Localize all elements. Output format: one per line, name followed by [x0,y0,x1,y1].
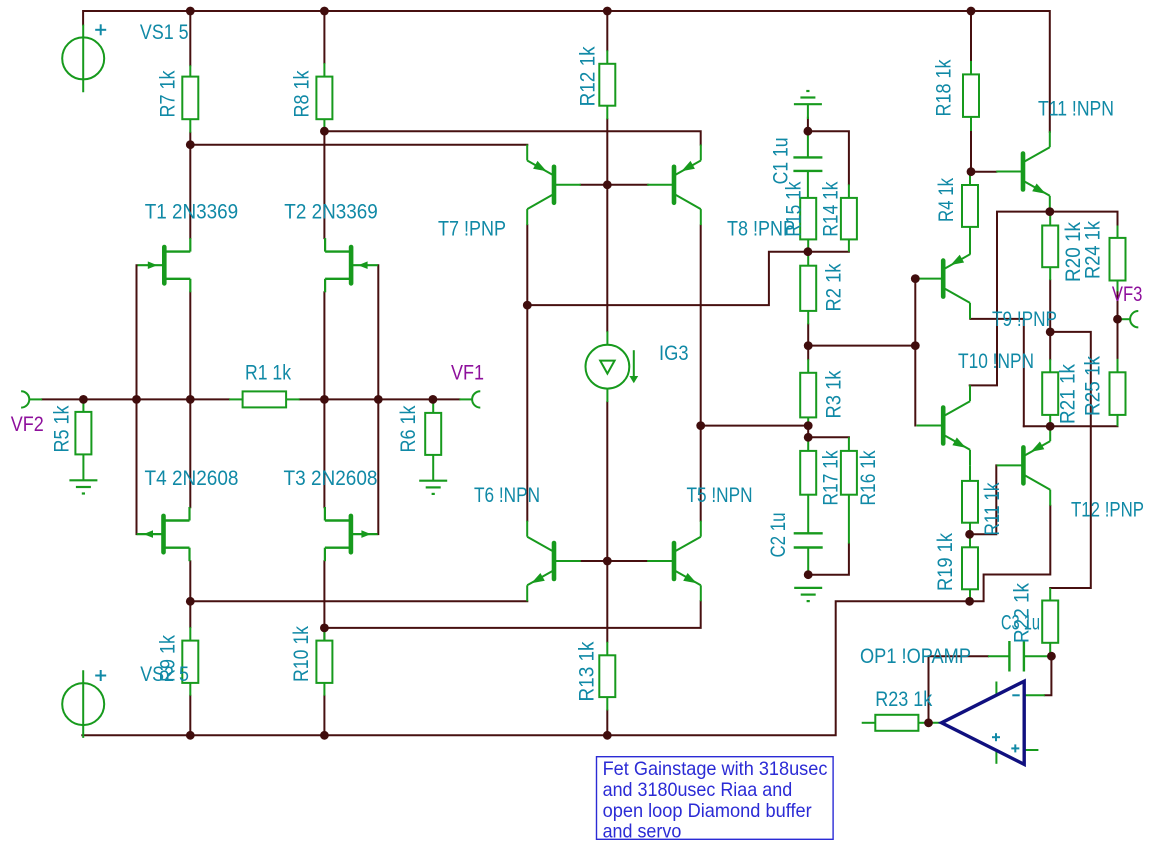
wire R12 top lead from rail [606,11,608,50]
resistor R19 1k [962,534,978,601]
op-amp OP1 !OPAMP [925,681,1045,764]
svg-text:R19 1k: R19 1k [933,533,957,591]
junction R19 bottom node [965,597,974,606]
resistor R17 1k [800,437,816,494]
svg-text:open loop Diamond buffer: open loop Diamond buffer [603,800,813,822]
transistor T10 !NPN [916,385,970,466]
lead flipped ground to C1 node [807,104,809,119]
transistor T8 !PNP [647,145,701,226]
wire input row R1 right to VF1 [300,398,460,400]
junction rail/R8 [320,7,329,16]
svg-text:T6 !NPN: T6 !NPN [474,483,540,507]
resistor R18 1k [963,61,979,131]
svg-text:T7 !PNP: T7 !PNP [438,217,506,241]
wire R16 bottom to C2 ground node [808,544,849,575]
wire input row VF2 to R1 left [42,398,229,400]
wire R13 bottom lead [606,711,608,736]
transistor T1 2N3369 n-JFET [138,238,191,292]
transistor T12 !PNP [997,425,1051,506]
wire R10 bottom lead [323,696,325,736]
wire T12 base jog from R11/R19 node [970,465,997,534]
wire T11 emitter node to T10 collector [970,212,1050,386]
wire T11 base lead dark segment [971,171,996,173]
wire T5 base lead [607,560,647,562]
transistor T6 !NPN [527,521,581,602]
svg-text:R3 1k: R3 1k [822,370,846,418]
transistor T3 2N2608 p-JFET [325,507,378,561]
junction T7 collector node [523,301,532,310]
resistor R4 1k [962,172,978,255]
annotation text box [597,757,834,840]
junction R3 bottom [804,421,813,430]
svg-text:C2 1u: C2 1u [766,513,790,558]
capacitor C3 1u [988,641,1048,672]
transistor T4 2N2608 p-JFET [137,507,190,561]
svg-text:T12 !PNP: T12 !PNP [1071,498,1144,522]
junction R2-R3 wire to T9 base column [911,341,920,350]
wire T1 drain column [189,145,191,238]
svg-text:T5 !NPN: T5 !NPN [687,483,753,507]
wire flipped-ground to C1 node [807,118,809,132]
svg-text:T2 2N3369: T2 2N3369 [284,200,378,224]
svg-text:T9 !PNP: T9 !PNP [992,307,1057,331]
svg-text:R15 1k: R15 1k [782,181,806,236]
wire IG3 bottom to T5/T6 base node and R13 [606,402,608,642]
junction T7/T8 bases [603,180,612,189]
wire T11 emitter node to R24 top [1050,212,1118,226]
wire T1 source column [189,292,191,507]
resistor R12 1k [599,50,615,119]
svg-text:R5 1k: R5 1k [50,405,74,452]
junction R20 bottom node [1046,328,1055,337]
svg-text:T3 2N2608: T3 2N2608 [284,466,378,490]
junction R17/R16 tops [804,433,813,442]
flipped ground above C1 [794,91,822,104]
resistor R21 1k [1042,359,1058,426]
junction rail/R9 [186,731,195,740]
junction T4 source node [186,597,195,606]
wire R18 top lead from rail [970,11,972,61]
resistor R22 1k [1042,588,1058,656]
resistor R15 1k [800,198,816,252]
wire R20 bottom lead [1049,280,1051,332]
resistor R11 1k [962,466,978,535]
resistor R6 1k [425,399,441,480]
resistor R8 1k [316,63,332,131]
wire T9 collector riser to R21/R25 row [970,319,1024,426]
node VF3 output terminal [1120,311,1139,327]
wire T9 base column [914,279,916,426]
junction T11 base/R18/R4 [967,167,976,176]
wire R14 bottom corner to R15/R14 node [808,251,849,253]
ground below R6 [419,481,447,494]
resistor R9 1k [182,627,198,696]
wire R2 bottom lead [807,324,809,345]
wire C1 node to R14 top [808,131,849,184]
resistor R7 1k [182,65,198,132]
junction R11/R19 node [965,530,974,539]
svg-text:R17 1k: R17 1k [819,450,843,505]
wire R24 bottom to VF3 node [1117,291,1119,319]
junction R6 top VF1 [429,395,438,404]
junction T5/T8 collectors [696,421,705,430]
wire T6 emitter to T4 source node [190,600,527,602]
svg-text:R12 1k: R12 1k [576,46,600,106]
wire R21 top lead [1049,332,1051,359]
wire top supply rail from VS1 to T11 collector [83,11,1050,132]
wire VF3 node to R25 top [1117,319,1119,359]
wire T5/T8 collector node to R3 bottom [701,425,809,427]
wire T7 base to node [581,184,608,186]
wire row R21/T12-emitter/R25 [1024,425,1118,427]
wire bottom rail from VS2 to R19 node [82,601,969,735]
resistor R3 1k [800,359,816,425]
wire node to T8 base [607,184,647,186]
junction input row gate T2/T3 [374,395,383,404]
svg-text:R8 1k: R8 1k [290,70,314,117]
svg-text:T1 2N3369: T1 2N3369 [145,200,239,224]
wire T5 emitter to T3 source node [324,601,700,628]
wire T8 collector column to T5 collector [700,226,702,521]
wire R20 node to R22 top via right riser [1050,332,1091,588]
svg-text:T10 !NPN: T10 !NPN [958,349,1034,373]
resistor R1 1k [229,391,300,407]
wire T4 source column to R9 [189,561,191,627]
resistor R2 1k [800,252,816,325]
junction R5 top [79,395,88,404]
svg-text:R7 1k: R7 1k [156,70,180,117]
svg-text:T11 !NPN: T11 !NPN [1038,97,1114,121]
wire T2 source column [323,292,325,507]
svg-text:R4 1k: R4 1k [934,178,958,222]
svg-text:T4 2N2608: T4 2N2608 [145,466,239,490]
junction rail/R12 [603,7,612,16]
svg-text:R16 1k: R16 1k [856,450,880,505]
wire R3 node jog to R16 top [808,426,849,438]
junction rail/R18 [967,7,976,16]
wire R2/R3 node to T9 base column [808,345,915,347]
svg-text:IG3: IG3 [659,341,689,365]
svg-text:OP1 !OPAMP: OP1 !OPAMP [860,644,971,668]
current source IG3 [586,331,639,402]
wire R15/R14 node down to T7-collector node [527,252,808,305]
wire opamp output riser to C3 left [929,656,989,723]
junction T9 base [911,274,920,283]
svg-text:C1 1u: C1 1u [769,137,793,184]
wire T11 base node to R18/R4 [970,131,972,172]
junction R15/R14 bottoms [804,247,813,256]
svg-text:R11 1k: R11 1k [980,482,1004,535]
svg-text:C3 1u: C3 1u [1001,611,1040,635]
junction R8/T2 drain [320,127,329,136]
wire R19 bottom lead [969,589,971,601]
transistor T5 !NPN [647,521,701,602]
junction C2 bottom ground node [804,570,813,579]
svg-text:R25 1k: R25 1k [1081,356,1105,416]
resistor R5 1k [75,399,91,480]
svg-text:R9 1k: R9 1k [156,635,180,682]
wire T6 base lead [581,560,608,562]
svg-text:Fet Gainstage with 318usec: Fet Gainstage with 318usec [603,758,828,780]
wire R7 top lead from rail [189,11,191,65]
junction rail/R13 [603,731,612,740]
junction R2/R3 node [804,341,813,350]
wire T2 drain column [323,131,325,238]
junction rail/R10 [320,731,329,740]
svg-text:R23 1k: R23 1k [875,687,932,711]
junction T11 emitter node [1045,207,1054,216]
svg-text:R18 1k: R18 1k [932,59,956,116]
resistor R25 1k [1110,359,1126,427]
svg-text:R2 1k: R2 1k [822,263,846,311]
transistor T7 !PNP [527,145,581,226]
junction input row T2 source [320,395,329,404]
wire R3 top lead [807,346,809,360]
wire R9 bottom lead [189,696,191,736]
wire T1/T4 gate column [136,265,138,534]
voltage source VS1 [62,24,106,92]
wire T12 collector to R19 bottom node [970,506,1051,602]
svg-text:R10 1k: R10 1k [289,626,313,682]
resistor R14 1k [841,184,857,251]
junction T5/T6 bases [603,557,612,566]
resistor R23 1k [862,715,925,731]
svg-text:VF3: VF3 [1112,282,1143,306]
wire R12 bottom through base node to IG3 top [606,119,608,331]
svg-text:and servo: and servo [603,821,682,843]
ground below C2 [794,588,822,601]
wire R8 top lead from rail [323,11,325,63]
svg-text:R21 1k: R21 1k [1056,364,1080,424]
junction rail/R7 [186,7,195,16]
voltage source VS2 [62,670,106,738]
resistor R13 1k [599,642,615,711]
svg-text:R6 1k: R6 1k [396,405,420,452]
transistor T11 !NPN [996,131,1050,212]
capacitor C2 1u [794,495,823,575]
svg-text:VF1: VF1 [451,361,484,385]
junction input row T1 source [186,395,195,404]
junction VF3 node [1113,315,1122,324]
junction R7/T1 drain [186,140,195,149]
junction opamp output/R23 [924,718,933,727]
svg-text:R1 1k: R1 1k [245,361,291,385]
junction input row gate T1/T4 [132,395,141,404]
resistor R24 1k [1110,226,1126,292]
wire T3 source column to R10 [323,561,325,640]
node VF1 output terminal [459,391,480,407]
node VF2 input terminal [21,391,42,407]
transistor T2 2N3369 n-JFET [325,238,378,292]
svg-text:VF2: VF2 [11,412,44,436]
svg-text:R14 1k: R14 1k [819,181,843,236]
wire node R8 to T8 emitter [324,131,700,144]
wire C3/R22 node to opamp inverting input [1045,656,1052,695]
resistor R10 1k [316,628,332,696]
ground below R5 [69,480,97,493]
resistor R16 1k [841,437,857,543]
junction C1 top node [804,127,813,136]
junction C3/R22 node [1047,652,1056,661]
svg-text:R13 1k: R13 1k [575,641,599,701]
wire node R7 to T7 emitter [190,144,527,146]
resistor R20 1k [1042,212,1058,281]
junction R21 bottom/T12 emitter [1046,422,1055,431]
svg-text:and 3180usec Riaa and: and 3180usec Riaa and [603,779,793,801]
svg-text:R24 1k: R24 1k [1081,221,1105,279]
svg-text:VS1 5: VS1 5 [140,20,189,44]
transistor T9 !PNP [916,238,970,319]
capacitor C1 1u [793,135,822,198]
wire T2/T3 gate column [377,265,379,534]
wire R7 bottom to node [189,133,191,145]
junction T3 source node [320,624,329,633]
wire T7 collector column to T6 collector [526,225,528,520]
